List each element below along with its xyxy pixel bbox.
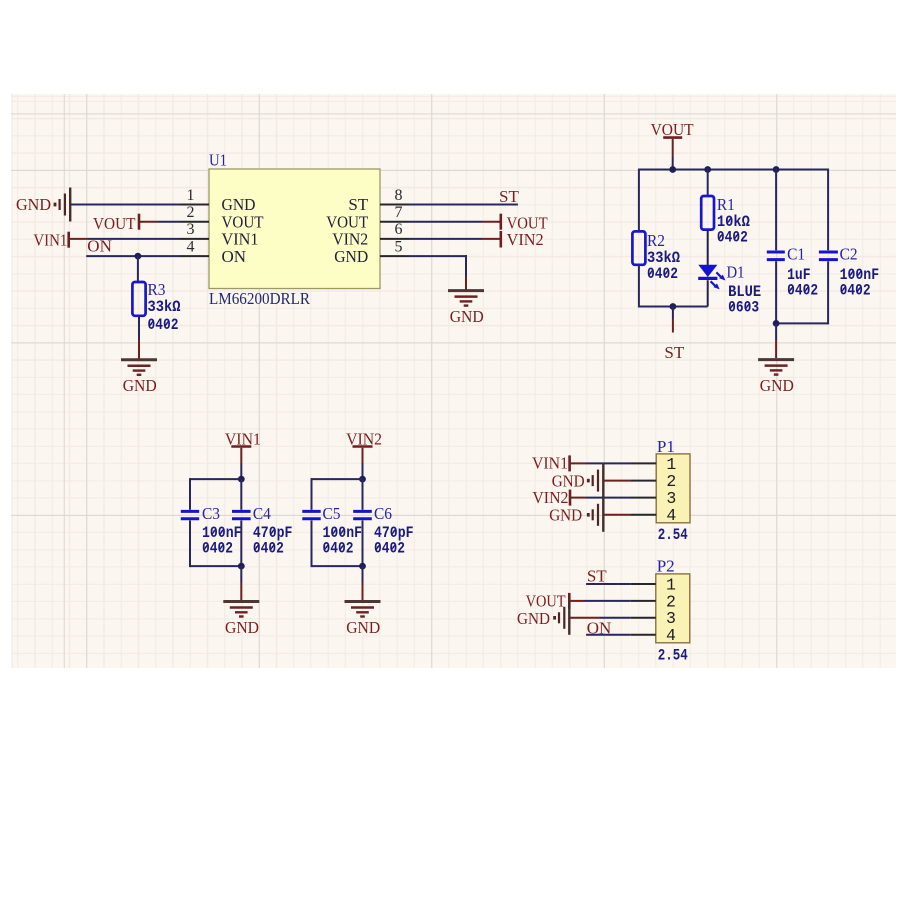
power port VOUT label (right of U1): [507, 213, 549, 232]
svg-text:LM66200DRLR: LM66200DRLR: [209, 289, 311, 308]
power port VIN2 label (P1 pin3): [532, 488, 568, 507]
svg-text:GND: GND: [16, 195, 51, 214]
power port VIN1 bar (P1 pin1): [568, 455, 571, 471]
wire rail to C1: [775, 169, 777, 251]
svg-text:0402: 0402: [647, 265, 678, 283]
svg-text:7: 7: [395, 204, 403, 221]
svg-text:C4: C4: [253, 504, 271, 523]
net label ST (P2 pin1): [587, 567, 607, 586]
svg-text:GND: GND: [346, 618, 380, 637]
svg-text:ON: ON: [87, 237, 112, 256]
svg-text:P1: P1: [657, 437, 675, 456]
junction VIN1 caps bottom: [238, 563, 245, 570]
svg-text:33kΩ: 33kΩ: [148, 298, 181, 316]
P1 pin number 1: [666, 455, 676, 474]
svg-text:GND: GND: [549, 505, 582, 524]
power port VIN1 bar (decoupling caps): [231, 445, 251, 448]
U1 pin 1 stub: [180, 204, 209, 206]
wire C5 to bottom rail: [311, 521, 313, 568]
capacitor C6: [353, 511, 372, 518]
svg-text:VOUT: VOUT: [93, 214, 136, 233]
power port VIN2 bar (right of U1): [499, 231, 502, 248]
wire R3 to GND: [138, 316, 140, 359]
svg-text:VIN1: VIN1: [222, 230, 259, 249]
power port VIN1 label (P1 pin1): [532, 454, 568, 473]
svg-text:GND: GND: [123, 376, 157, 395]
svg-text:C5: C5: [323, 504, 341, 523]
wire C1 to bottom junction: [775, 261, 777, 323]
U1 pin number 1: [187, 187, 195, 204]
P2 pin number 3: [666, 609, 676, 628]
U1 pin number 8: [395, 187, 403, 204]
power port GND sideways ground symbol: [55, 188, 70, 222]
U1 pin number 7: [395, 204, 403, 221]
wire top rail C5-C6: [312, 478, 363, 480]
wire R2 to ST rail: [638, 265, 640, 308]
junction C1/C2 ground: [773, 320, 780, 327]
C2 value 100nF: [840, 266, 880, 284]
wire ON to U1 pin 4: [86, 255, 180, 257]
svg-text:0402: 0402: [148, 316, 179, 334]
svg-text:C2: C2: [840, 245, 858, 264]
D1 value 0603: [728, 299, 759, 317]
C5 value 0402: [323, 540, 354, 558]
wire down to C5: [311, 478, 313, 510]
D1 value BLUE: [728, 283, 761, 301]
power port VIN1 label (decoupling caps): [225, 430, 261, 449]
C4 designator label: [253, 504, 271, 523]
power port VOUT bar (right of U1): [499, 214, 502, 230]
svg-text:VIN2: VIN2: [532, 488, 568, 507]
svg-text:VOUT: VOUT: [222, 212, 265, 231]
R2 value 0402: [647, 265, 678, 283]
svg-text:ST: ST: [664, 343, 684, 362]
U1 pin name GND (pin1): [222, 195, 256, 214]
wire VIN2 down to junction: [362, 448, 364, 479]
R3 value 33kΩ: [148, 298, 181, 316]
wire ST rail: [639, 306, 708, 308]
GND label below R3: [123, 376, 157, 395]
P1 pin number 4: [666, 506, 676, 525]
svg-text:GND: GND: [450, 307, 484, 326]
wire rail to R1: [707, 169, 709, 196]
svg-text:3: 3: [666, 489, 676, 508]
svg-text:6: 6: [395, 221, 403, 238]
wire GND to U1 pin 1: [70, 204, 180, 206]
wire junction down to ST: [672, 307, 674, 333]
svg-text:R1: R1: [717, 195, 735, 214]
svg-text:R2: R2: [647, 231, 665, 250]
wire bottom rail C5-C6: [312, 565, 363, 567]
P2 pin number 1: [666, 575, 676, 594]
power port VIN2 bar (decoupling caps): [353, 445, 373, 448]
svg-text:4: 4: [666, 626, 676, 645]
U1 pin name GND (pin5): [334, 247, 368, 266]
svg-text:0603: 0603: [728, 299, 759, 317]
U1 pin number 6: [395, 221, 403, 238]
U1 pin 5 stub: [380, 255, 409, 257]
svg-text:GND: GND: [334, 247, 368, 266]
wire junction to GND (C5/C6): [362, 566, 364, 601]
power port VIN1 label (left of U1): [33, 230, 67, 249]
power port VIN1 bar: [67, 232, 70, 248]
svg-text:U1: U1: [209, 151, 227, 170]
wire U1 pin 8 to ST: [409, 204, 518, 206]
ground symbol below U1 pin 5: [448, 291, 484, 306]
wire R1 to D1: [707, 230, 709, 265]
svg-text:VIN2: VIN2: [332, 230, 368, 249]
net label ON (P2 pin4): [587, 619, 612, 638]
P2 pin number 4: [666, 626, 676, 645]
svg-text:GND: GND: [517, 609, 550, 628]
R1 designator label: [717, 195, 735, 214]
P1 pin number 3: [666, 489, 676, 508]
wire rail to R2: [638, 169, 640, 232]
svg-text:VIN1: VIN1: [33, 230, 67, 249]
R3 designator label: [148, 280, 166, 299]
U1 pin number 4: [187, 238, 195, 255]
svg-text:1: 1: [666, 455, 676, 474]
wire VIN1 down to junction: [240, 448, 242, 479]
R2 designator label: [647, 231, 665, 250]
svg-text:VIN1: VIN1: [532, 454, 568, 473]
wire C4 to bottom rail: [240, 521, 242, 567]
wire junction to GND (C3/C4): [240, 566, 242, 601]
wire C6 to bottom rail: [362, 521, 364, 567]
power port VIN2 label (decoupling caps): [346, 430, 382, 449]
wire P2 pin 4: [586, 634, 656, 636]
svg-text:P2: P2: [657, 557, 675, 576]
capacitor C2: [819, 252, 838, 260]
power port GND label (P1 pin4): [549, 505, 582, 524]
power port VOUT bar (top right circuit): [663, 136, 682, 139]
C6 designator label: [374, 504, 392, 523]
C6 value 0402: [374, 540, 405, 558]
wire top rail: [639, 169, 828, 171]
wire down to C6: [362, 479, 364, 510]
ground symbol below R3: [121, 360, 157, 375]
power port VOUT label (P2 pin2): [526, 592, 567, 611]
svg-text:0402: 0402: [323, 540, 354, 558]
wire U1 pin 7 to VOUT port: [409, 221, 501, 223]
svg-text:VIN2: VIN2: [507, 230, 544, 249]
wire P1 pin 2: [603, 480, 656, 482]
junction VIN1 caps top: [238, 476, 245, 483]
junction VIN2 caps bottom: [359, 563, 366, 570]
C1 designator label: [787, 245, 805, 264]
svg-text:C3: C3: [202, 504, 220, 523]
R1 value 0402: [717, 229, 748, 247]
junction ST rail: [670, 303, 677, 310]
svg-text:ST: ST: [499, 187, 519, 206]
U1 pin 6 stub: [380, 238, 409, 240]
wire junction to GND: [775, 323, 777, 358]
wire D1 to ST rail: [707, 280, 709, 306]
ground symbol below C3/C4: [223, 602, 259, 617]
C4 value 0402: [253, 540, 284, 558]
ground symbol below C1/C2: [758, 360, 794, 375]
power port GND sideways ground symbol (P1 pin4): [588, 498, 603, 532]
svg-text:VOUT: VOUT: [526, 592, 567, 611]
power port GND label (P2 pin3): [517, 609, 550, 628]
svg-text:4: 4: [187, 238, 195, 255]
C3 value 0402: [202, 540, 233, 558]
C4 value 470pF: [253, 524, 293, 542]
svg-text:ST: ST: [587, 567, 607, 586]
D1 designator label: [727, 263, 745, 282]
U1 designator label: [209, 151, 227, 170]
svg-text:C1: C1: [787, 245, 805, 264]
C3 designator label: [202, 504, 220, 523]
junction C1/rail: [773, 166, 780, 173]
U1 pin 8 stub: [380, 204, 409, 206]
R3 value 0402: [148, 316, 179, 334]
U1 pin number 3: [187, 221, 195, 238]
wire U1 pin 6 to VIN2 port: [409, 238, 501, 240]
svg-text:2.54: 2.54: [658, 526, 688, 544]
GND label below U1 pin 5: [450, 307, 484, 326]
C5 designator label: [323, 504, 341, 523]
C2 value 0402: [840, 282, 871, 300]
connector P2 body: [656, 574, 690, 643]
capacitor C4: [232, 511, 251, 518]
C1 value 0402: [787, 282, 818, 300]
power port GND label (P1 pin2): [552, 471, 585, 490]
C5 value 100nF: [323, 524, 363, 542]
svg-text:C6: C6: [374, 504, 392, 523]
wire VOUT to U1 pin 2: [139, 221, 180, 223]
capacitor C5: [302, 511, 320, 518]
power port GND sideways ground symbol (P1 pin2): [588, 464, 603, 498]
U1 pin 3 stub: [180, 238, 209, 240]
resistor R2: [632, 231, 645, 264]
C1 value 1uF: [787, 266, 811, 284]
svg-text:D1: D1: [727, 263, 745, 282]
U1 pin 2 stub: [180, 221, 209, 223]
wire ON junction to R3: [137, 256, 139, 282]
svg-text:8: 8: [395, 187, 403, 204]
wire bottom rail C1-C2: [776, 322, 828, 324]
power port VOUT bar (P2 pin2): [568, 593, 571, 609]
GND label below C1/C2: [760, 376, 794, 395]
C6 value 470pF: [374, 524, 414, 542]
LED D1: [698, 265, 725, 290]
connector P1 body: [656, 454, 690, 523]
wire C3 to bottom rail: [189, 521, 191, 568]
net label ST (top right circuit): [664, 343, 684, 362]
P1 pin number 2: [666, 472, 676, 491]
slashed-zero marks on value labels: [150, 218, 861, 550]
svg-text:3: 3: [187, 221, 195, 238]
wire VIN1 to U1 pin 3: [69, 238, 180, 240]
wire bottom rail C3-C4: [190, 565, 241, 567]
wire top rail C3-C4: [190, 478, 241, 480]
P1 designator label: [657, 437, 675, 456]
P2 designator label: [657, 557, 675, 576]
svg-text:0402: 0402: [202, 540, 233, 558]
svg-text:0402: 0402: [253, 540, 284, 558]
op-amp U1 body LM66200DRLR: [209, 169, 380, 289]
U1 pin name ST (pin8): [348, 195, 368, 214]
capacitor C3: [181, 511, 199, 518]
svg-text:0402: 0402: [787, 282, 818, 300]
U1 pin name ON (pin4): [222, 247, 247, 266]
svg-text:0402: 0402: [840, 282, 871, 300]
GND label below C3/C4: [225, 618, 259, 637]
P2 pin number 2: [666, 592, 676, 611]
power port VIN2 label (right of U1): [507, 230, 544, 249]
svg-text:2: 2: [187, 204, 195, 221]
net label ON: [87, 237, 112, 256]
C3 value 100nF: [202, 524, 242, 542]
GND label below C5/C6: [346, 618, 380, 637]
U1 pin name VOUT (pin2): [222, 212, 265, 231]
wire P1 pin 1: [570, 462, 657, 464]
wire down to C4: [240, 479, 242, 510]
P2 value 2.54: [658, 647, 688, 665]
wire C2 down to bottom rail: [827, 261, 829, 324]
resistor R3: [132, 282, 145, 316]
junction R1/rail: [704, 166, 711, 173]
U1 pin name VOUT (pin7): [326, 212, 369, 231]
ground symbol below C5/C6: [345, 602, 381, 617]
wire VOUT down to rail: [672, 139, 674, 170]
wire rail down to C2: [827, 169, 829, 251]
svg-text:2.54: 2.54: [658, 647, 688, 665]
C2 designator label: [840, 245, 858, 264]
net label ST (right of U1): [499, 187, 519, 206]
power port VOUT bar: [138, 214, 141, 230]
svg-text:GND: GND: [760, 376, 794, 395]
P1 value 2.54: [658, 526, 688, 544]
power port GND label (left of U1): [16, 195, 51, 214]
power port GND sideways ground symbol (P2 pin3): [555, 601, 570, 635]
svg-text:4: 4: [666, 506, 676, 525]
junction ON/R3: [135, 253, 142, 260]
svg-text:GND: GND: [222, 195, 256, 214]
power port VOUT label (top right circuit): [651, 120, 695, 139]
U1 pin number 2: [187, 204, 195, 221]
wire P1 pin 4: [603, 514, 656, 516]
svg-text:1: 1: [187, 187, 195, 204]
svg-text:5: 5: [395, 238, 403, 255]
R1 value 10kΩ: [717, 213, 750, 231]
wire P1 pin 3: [570, 497, 656, 499]
junction VIN2 caps top: [359, 476, 366, 483]
svg-text:VOUT: VOUT: [651, 120, 695, 139]
U1 pin name VIN1 (pin3): [222, 230, 259, 249]
svg-text:0402: 0402: [374, 540, 405, 558]
wire down to C3: [189, 478, 191, 510]
capacitor C1: [767, 252, 785, 260]
wire U1 pin 5 to GND: [409, 255, 467, 290]
U1 pin number 5: [395, 238, 403, 255]
U1 pin 7 stub: [380, 221, 409, 223]
R2 value 33kΩ: [647, 249, 680, 267]
junction VOUT/rail: [669, 166, 676, 173]
wire P2 pin 1: [586, 583, 656, 585]
svg-text:ON: ON: [222, 247, 247, 266]
power port VIN2 bar (P1 pin3): [569, 490, 572, 506]
wire P2 pin 3: [569, 617, 656, 619]
U1 pin 4 stub: [180, 255, 209, 257]
U1 pin name VIN2 (pin6): [332, 230, 368, 249]
svg-text:ST: ST: [348, 195, 368, 214]
svg-text:GND: GND: [225, 618, 259, 637]
svg-text:0402: 0402: [717, 229, 748, 247]
wire P2 pin 2: [569, 600, 656, 602]
power port VOUT label (left of U1): [93, 214, 136, 233]
resistor R1: [701, 196, 714, 230]
svg-text:VOUT: VOUT: [326, 212, 369, 231]
U1 comment LM66200DRLR: [209, 289, 311, 308]
svg-text:R3: R3: [148, 280, 166, 299]
